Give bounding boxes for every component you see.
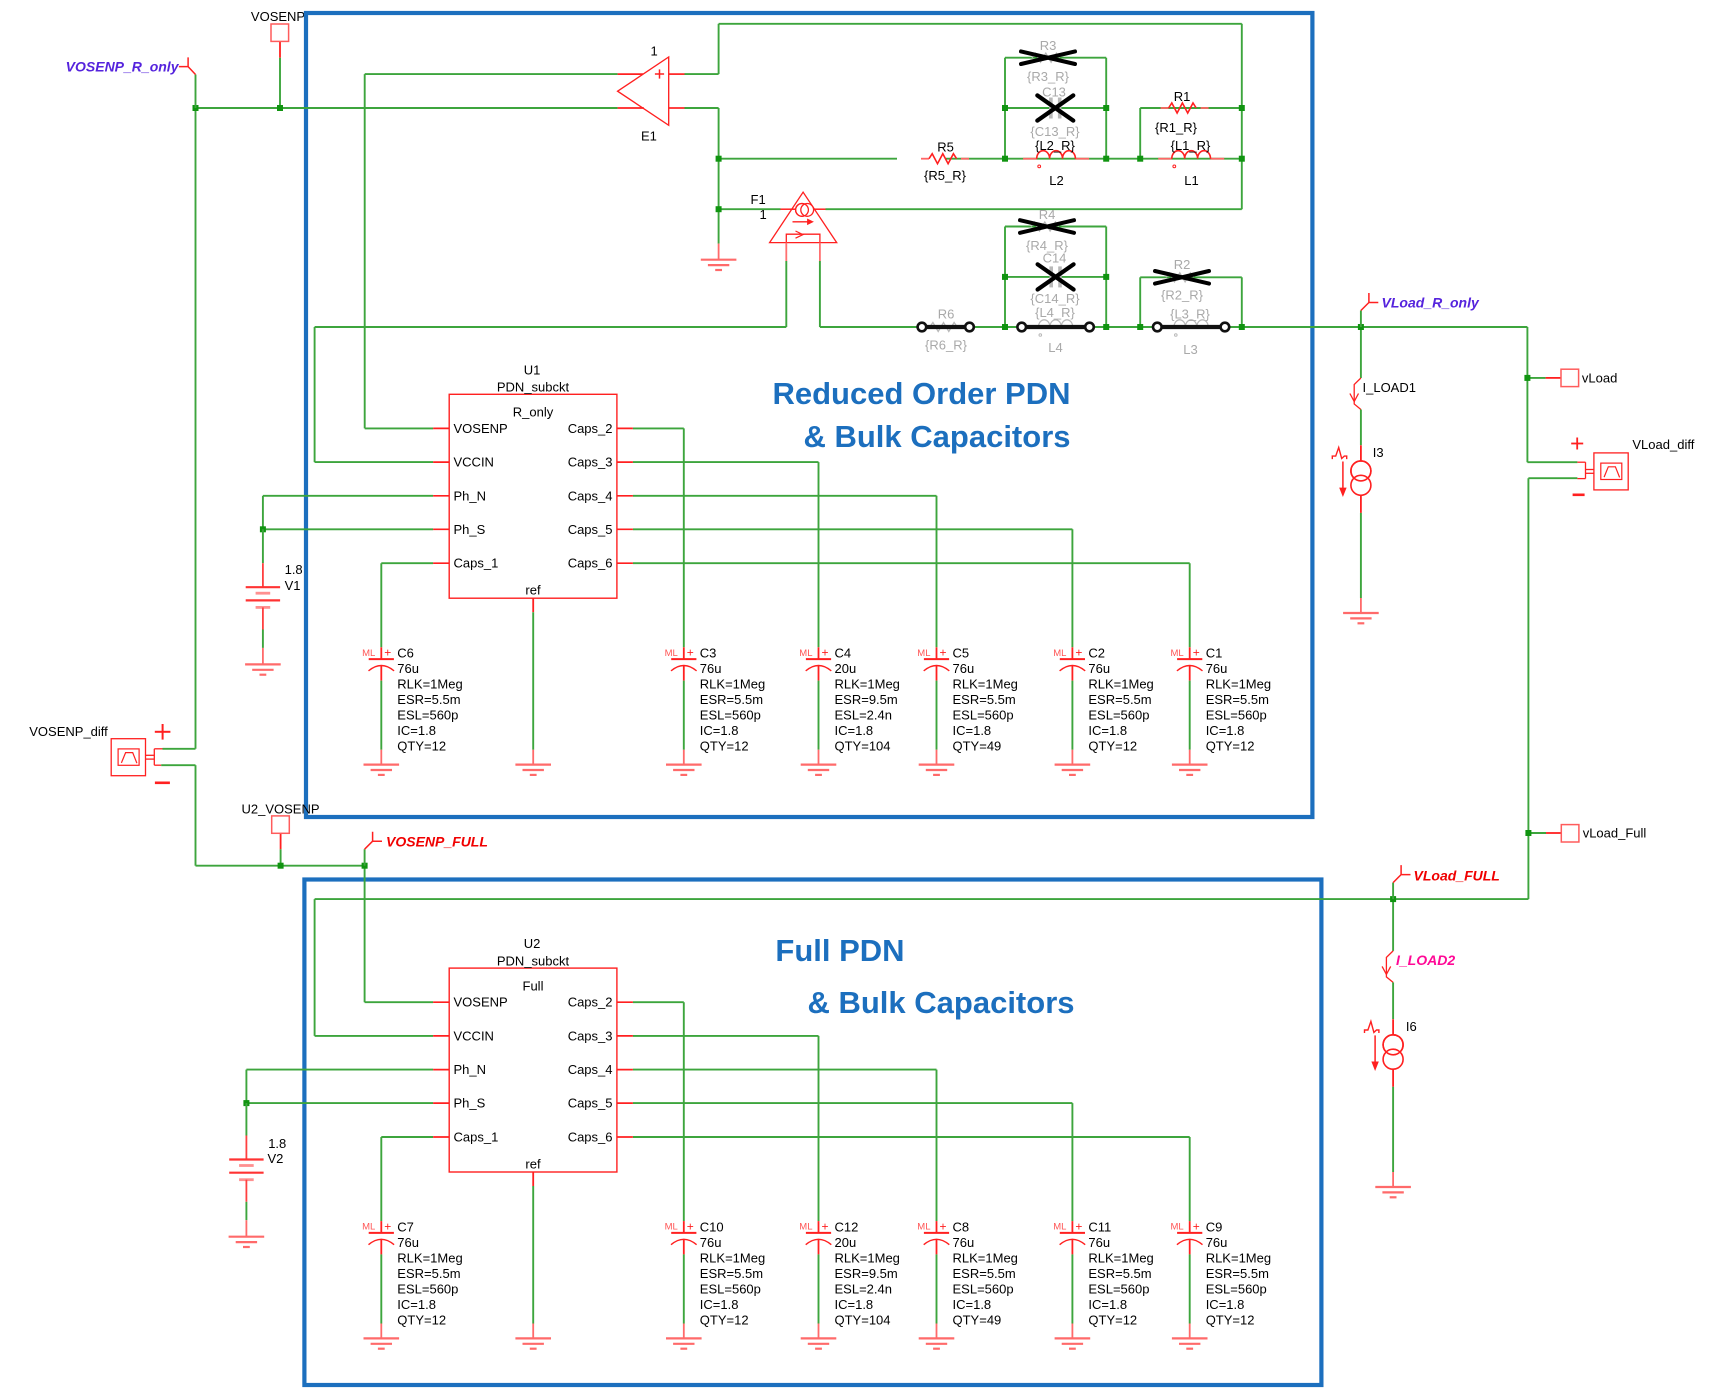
- svg-text:Caps_2: Caps_2: [568, 421, 613, 436]
- svg-text:RLK=1Meg: RLK=1Meg: [1206, 1250, 1271, 1265]
- svg-text:VOSENP_R_only: VOSENP_R_only: [66, 59, 180, 75]
- svg-text:IC=1.8: IC=1.8: [1206, 1297, 1245, 1312]
- svg-text:+: +: [1075, 646, 1082, 660]
- svg-text:IC=1.8: IC=1.8: [397, 723, 436, 738]
- svg-text:RLK=1Meg: RLK=1Meg: [1088, 1250, 1153, 1265]
- svg-text:QTY=104: QTY=104: [835, 739, 891, 754]
- svg-text:20u: 20u: [835, 1235, 857, 1250]
- svg-text:ESR=5.5m: ESR=5.5m: [1088, 1266, 1151, 1281]
- svg-text:76u: 76u: [1206, 1235, 1228, 1250]
- svg-text:IC=1.8: IC=1.8: [700, 1297, 739, 1312]
- svg-text:R4: R4: [1039, 207, 1056, 222]
- svg-text:ESR=9.5m: ESR=9.5m: [835, 692, 898, 707]
- svg-text:R2: R2: [1174, 257, 1191, 272]
- svg-text:+: +: [687, 646, 694, 660]
- svg-text:ML: ML: [665, 1222, 678, 1233]
- svg-text:C6: C6: [397, 646, 414, 661]
- svg-text:C4: C4: [835, 646, 852, 661]
- svg-text:RLK=1Meg: RLK=1Meg: [835, 677, 900, 692]
- svg-text:+: +: [940, 646, 947, 660]
- svg-text:ML: ML: [799, 648, 812, 659]
- svg-text:Reduced Order PDN: Reduced Order PDN: [772, 376, 1070, 411]
- svg-text:+: +: [1075, 1219, 1082, 1233]
- svg-text:VOSENP: VOSENP: [454, 995, 508, 1010]
- svg-text:+: +: [1193, 646, 1200, 660]
- svg-text:C5: C5: [953, 646, 970, 661]
- svg-text:ESL=560p: ESL=560p: [953, 1281, 1014, 1296]
- svg-text:ESR=5.5m: ESR=5.5m: [1088, 692, 1151, 707]
- svg-text:VLoad_FULL: VLoad_FULL: [1414, 868, 1500, 884]
- svg-text:Caps_4: Caps_4: [568, 488, 613, 503]
- svg-text:U2: U2: [524, 936, 541, 951]
- svg-text:vLoad: vLoad: [1582, 370, 1617, 385]
- svg-text:IC=1.8: IC=1.8: [835, 1297, 874, 1312]
- svg-text:ESL=560p: ESL=560p: [1088, 708, 1149, 723]
- svg-text:ML: ML: [917, 648, 930, 659]
- svg-text:U1: U1: [524, 362, 541, 377]
- svg-text:IC=1.8: IC=1.8: [1088, 1297, 1127, 1312]
- svg-text:{C13_R}: {C13_R}: [1030, 124, 1080, 139]
- svg-text:C13: C13: [1042, 85, 1066, 100]
- svg-text:L3: L3: [1183, 342, 1197, 357]
- svg-text:& Bulk Capacitors: & Bulk Capacitors: [803, 419, 1070, 454]
- svg-text:ESR=5.5m: ESR=5.5m: [397, 692, 460, 707]
- svg-text:QTY=12: QTY=12: [1206, 1312, 1255, 1327]
- svg-text:IC=1.8: IC=1.8: [953, 1297, 992, 1312]
- svg-text:L4: L4: [1048, 340, 1062, 355]
- svg-text:IC=1.8: IC=1.8: [953, 723, 992, 738]
- svg-text:IC=1.8: IC=1.8: [835, 723, 874, 738]
- svg-text:1: 1: [651, 44, 658, 59]
- svg-text:C11: C11: [1088, 1219, 1111, 1234]
- svg-text:QTY=49: QTY=49: [953, 1312, 1002, 1327]
- svg-text:ESL=560p: ESL=560p: [700, 708, 761, 723]
- svg-text:Caps_2: Caps_2: [568, 995, 613, 1010]
- svg-text:Full PDN: Full PDN: [775, 933, 904, 968]
- svg-text:QTY=49: QTY=49: [953, 739, 1002, 754]
- svg-text:RLK=1Meg: RLK=1Meg: [700, 1250, 765, 1265]
- svg-text:QTY=12: QTY=12: [1206, 739, 1255, 754]
- svg-text:1: 1: [760, 207, 767, 222]
- svg-text:{R5_R}: {R5_R}: [924, 168, 967, 183]
- svg-text:76u: 76u: [700, 661, 722, 676]
- svg-text:IC=1.8: IC=1.8: [1206, 723, 1245, 738]
- svg-text:RLK=1Meg: RLK=1Meg: [397, 1250, 462, 1265]
- svg-text:C2: C2: [1088, 646, 1105, 661]
- svg-text:PDN_subckt: PDN_subckt: [497, 953, 570, 968]
- svg-text:L1: L1: [1184, 173, 1198, 188]
- svg-text:I3: I3: [1373, 445, 1384, 460]
- svg-text:76u: 76u: [397, 1235, 419, 1250]
- svg-text:VOSENP: VOSENP: [251, 9, 305, 24]
- svg-text:C7: C7: [397, 1219, 414, 1234]
- svg-text:Caps_1: Caps_1: [454, 556, 499, 571]
- svg-text:V1: V1: [285, 578, 301, 593]
- svg-text:ESR=5.5m: ESR=5.5m: [1206, 1266, 1269, 1281]
- svg-text:ESL=560p: ESL=560p: [953, 708, 1014, 723]
- svg-text:Caps_1: Caps_1: [454, 1130, 499, 1145]
- svg-text:F1: F1: [751, 192, 766, 207]
- svg-text:VCCIN: VCCIN: [454, 455, 494, 470]
- svg-text:RLK=1Meg: RLK=1Meg: [953, 1250, 1018, 1265]
- svg-text:+: +: [687, 1219, 694, 1233]
- svg-text:C1: C1: [1206, 646, 1223, 661]
- svg-text:VCCIN: VCCIN: [454, 1028, 494, 1043]
- svg-text:Ph_S: Ph_S: [454, 1096, 486, 1111]
- svg-text:R1: R1: [1174, 89, 1191, 104]
- svg-text:vLoad_Full: vLoad_Full: [1583, 826, 1647, 841]
- svg-text:ML: ML: [362, 1222, 375, 1233]
- svg-text:76u: 76u: [953, 661, 975, 676]
- svg-text:VOSENP_FULL: VOSENP_FULL: [386, 834, 488, 850]
- svg-text:ESL=560p: ESL=560p: [700, 1281, 761, 1296]
- svg-text:IC=1.8: IC=1.8: [1088, 723, 1127, 738]
- svg-text:76u: 76u: [953, 1235, 975, 1250]
- svg-text:76u: 76u: [1206, 661, 1228, 676]
- svg-text:Caps_6: Caps_6: [568, 556, 613, 571]
- svg-text:76u: 76u: [1088, 661, 1110, 676]
- svg-text:Caps_5: Caps_5: [568, 522, 613, 537]
- svg-text:76u: 76u: [1088, 1235, 1110, 1250]
- svg-text:ML: ML: [665, 648, 678, 659]
- svg-text:{R3_R}: {R3_R}: [1027, 69, 1070, 84]
- svg-text:R5: R5: [937, 140, 954, 155]
- svg-text:{R1_R}: {R1_R}: [1155, 120, 1198, 135]
- svg-text:ML: ML: [799, 1222, 812, 1233]
- svg-text:Caps_3: Caps_3: [568, 1028, 613, 1043]
- svg-text:ESL=560p: ESL=560p: [397, 1281, 458, 1296]
- svg-text:ML: ML: [1053, 648, 1066, 659]
- svg-text:1.8: 1.8: [285, 562, 303, 577]
- svg-text:I6: I6: [1406, 1019, 1417, 1034]
- svg-text:QTY=12: QTY=12: [700, 1312, 749, 1327]
- svg-text:& Bulk Capacitors: & Bulk Capacitors: [807, 985, 1074, 1020]
- svg-text:C3: C3: [700, 646, 717, 661]
- svg-text:+: +: [822, 646, 829, 660]
- svg-text:C9: C9: [1206, 1219, 1223, 1234]
- svg-text:RLK=1Meg: RLK=1Meg: [397, 677, 462, 692]
- svg-text:L2: L2: [1049, 173, 1063, 188]
- svg-text:ESL=560p: ESL=560p: [1088, 1281, 1149, 1296]
- svg-text:+: +: [822, 1219, 829, 1233]
- svg-text:ML: ML: [362, 648, 375, 659]
- svg-text:QTY=12: QTY=12: [397, 1312, 446, 1327]
- svg-text:ESR=5.5m: ESR=5.5m: [700, 692, 763, 707]
- svg-text:I_LOAD2: I_LOAD2: [1396, 952, 1455, 968]
- svg-text:ML: ML: [1170, 648, 1183, 659]
- svg-text:R6: R6: [938, 307, 955, 322]
- svg-text:RLK=1Meg: RLK=1Meg: [835, 1250, 900, 1265]
- svg-text:ESR=5.5m: ESR=5.5m: [700, 1266, 763, 1281]
- svg-text:{L4_R}: {L4_R}: [1035, 305, 1075, 320]
- svg-text:ESR=5.5m: ESR=5.5m: [953, 692, 1016, 707]
- svg-text:{R2_R}: {R2_R}: [1161, 288, 1204, 303]
- svg-text:C8: C8: [953, 1219, 970, 1234]
- svg-text:RLK=1Meg: RLK=1Meg: [1088, 677, 1153, 692]
- svg-text:76u: 76u: [397, 661, 419, 676]
- svg-text:C14: C14: [1043, 251, 1067, 266]
- svg-text:ML: ML: [1053, 1222, 1066, 1233]
- svg-text:VOSENP_diff: VOSENP_diff: [29, 724, 108, 739]
- svg-text:VLoad_diff: VLoad_diff: [1632, 437, 1694, 452]
- svg-text:QTY=12: QTY=12: [1088, 739, 1137, 754]
- svg-text:I_LOAD1: I_LOAD1: [1363, 380, 1416, 395]
- svg-text:{L2_R}: {L2_R}: [1035, 138, 1075, 153]
- svg-text:{L3_R}: {L3_R}: [1170, 307, 1210, 322]
- svg-text:ref: ref: [525, 1156, 541, 1171]
- svg-text:IC=1.8: IC=1.8: [700, 723, 739, 738]
- svg-text:IC=1.8: IC=1.8: [397, 1297, 436, 1312]
- svg-text:20u: 20u: [835, 661, 857, 676]
- svg-text:U2_VOSENP: U2_VOSENP: [241, 802, 319, 817]
- svg-text:ESL=2.4n: ESL=2.4n: [835, 1281, 892, 1296]
- svg-text:ESR=5.5m: ESR=5.5m: [953, 1266, 1016, 1281]
- svg-text:ESR=5.5m: ESR=5.5m: [397, 1266, 460, 1281]
- svg-text:RLK=1Meg: RLK=1Meg: [700, 677, 765, 692]
- svg-text:PDN_subckt: PDN_subckt: [497, 380, 570, 395]
- svg-text:V2: V2: [268, 1151, 284, 1166]
- svg-text:Caps_5: Caps_5: [568, 1096, 613, 1111]
- svg-text:ML: ML: [917, 1222, 930, 1233]
- svg-text:R3: R3: [1040, 38, 1057, 53]
- svg-text:+: +: [384, 1219, 391, 1233]
- svg-text:QTY=12: QTY=12: [1088, 1312, 1137, 1327]
- svg-text:Caps_6: Caps_6: [568, 1130, 613, 1145]
- svg-text:+: +: [384, 646, 391, 660]
- svg-text:{C14_R}: {C14_R}: [1030, 291, 1080, 306]
- svg-text:VOSENP: VOSENP: [454, 421, 508, 436]
- svg-text:+: +: [940, 1219, 947, 1233]
- svg-text:1.8: 1.8: [268, 1136, 286, 1151]
- svg-text:{L1_R}: {L1_R}: [1171, 138, 1211, 153]
- svg-text:QTY=104: QTY=104: [835, 1312, 891, 1327]
- svg-text:Ph_N: Ph_N: [454, 488, 487, 503]
- svg-text:Caps_3: Caps_3: [568, 455, 613, 470]
- svg-text:C10: C10: [700, 1219, 724, 1234]
- svg-text:ESL=560p: ESL=560p: [397, 708, 458, 723]
- svg-text:Ph_N: Ph_N: [454, 1062, 487, 1077]
- svg-text:{R6_R}: {R6_R}: [925, 338, 968, 353]
- svg-text:R_only: R_only: [513, 405, 554, 420]
- svg-text:76u: 76u: [700, 1235, 722, 1250]
- svg-text:C12: C12: [835, 1219, 859, 1234]
- svg-text:Caps_4: Caps_4: [568, 1062, 613, 1077]
- svg-text:ESL=560p: ESL=560p: [1206, 708, 1267, 723]
- svg-text:+: +: [1193, 1219, 1200, 1233]
- svg-text:QTY=12: QTY=12: [397, 739, 446, 754]
- svg-text:ESL=2.4n: ESL=2.4n: [835, 708, 892, 723]
- svg-text:ML: ML: [1170, 1222, 1183, 1233]
- svg-text:E1: E1: [641, 129, 657, 144]
- svg-text:VLoad_R_only: VLoad_R_only: [1382, 295, 1480, 311]
- svg-text:QTY=12: QTY=12: [700, 739, 749, 754]
- svg-text:Ph_S: Ph_S: [454, 522, 486, 537]
- svg-text:ESL=560p: ESL=560p: [1206, 1281, 1267, 1296]
- svg-text:RLK=1Meg: RLK=1Meg: [1206, 677, 1271, 692]
- svg-text:ESR=9.5m: ESR=9.5m: [835, 1266, 898, 1281]
- svg-text:ref: ref: [525, 583, 541, 598]
- svg-text:ESR=5.5m: ESR=5.5m: [1206, 692, 1269, 707]
- svg-text:Full: Full: [523, 978, 544, 993]
- svg-text:RLK=1Meg: RLK=1Meg: [953, 677, 1018, 692]
